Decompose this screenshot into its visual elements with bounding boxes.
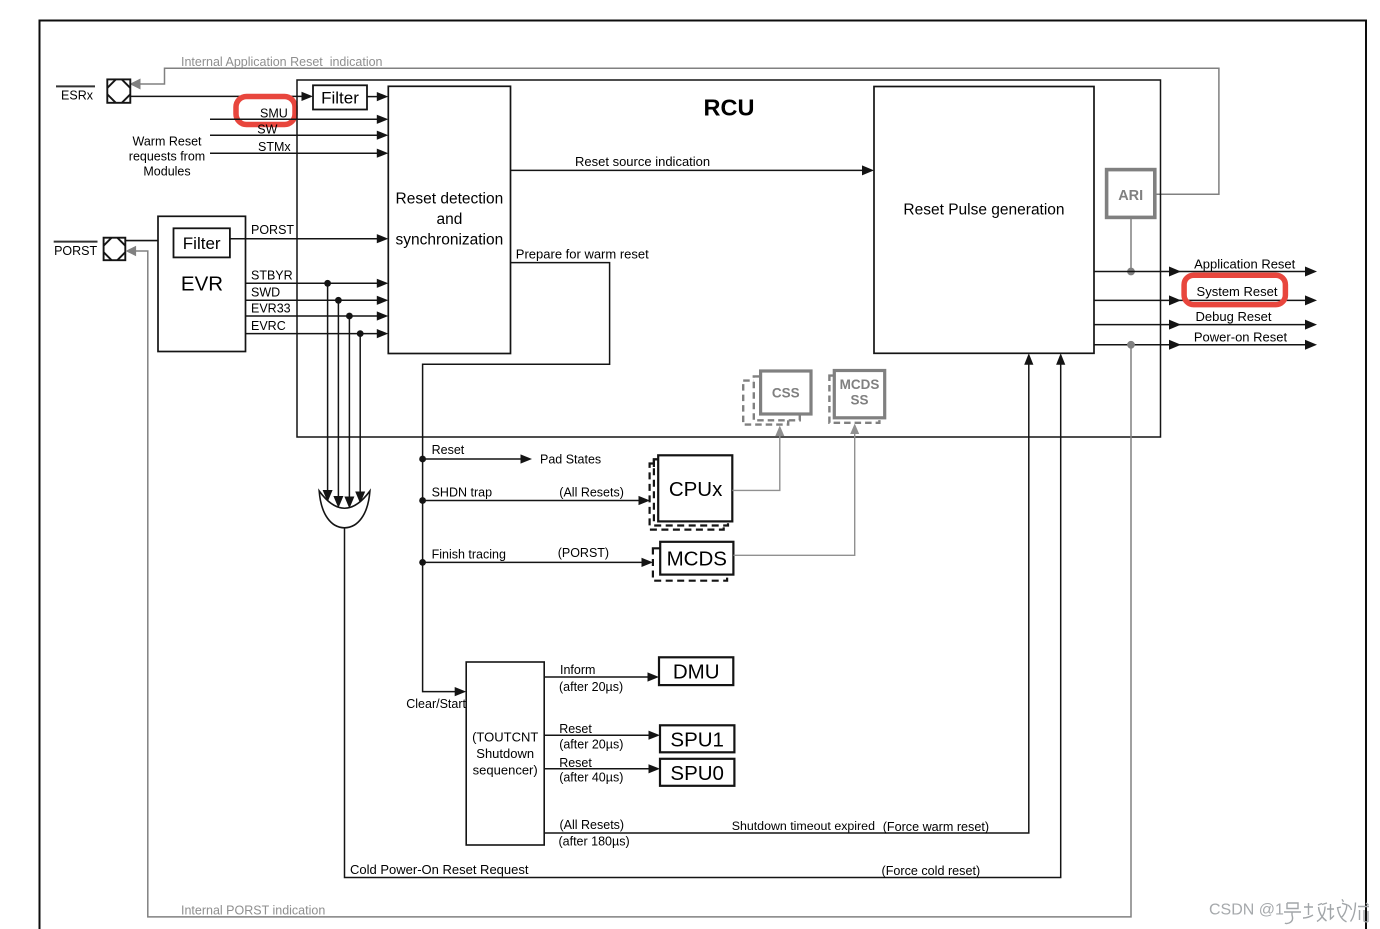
wire EVRC [246, 333, 378, 335]
block MCDS (with dashed shadow) [653, 542, 734, 581]
svg-text:sequencer): sequencer) [473, 762, 538, 777]
wire Finish tracing (PORST) to MCDS [419, 559, 426, 566]
wire PORST pad to Filter (EVR) [125, 240, 162, 242]
wire System Reset output [1094, 299, 1308, 301]
svg-text:EVRC: EVRC [251, 319, 286, 333]
svg-text:Pad States: Pad States [540, 452, 601, 466]
wire ARI down to Application Reset (gray) [1130, 217, 1132, 271]
junction dot EVR33 [346, 313, 353, 320]
svg-text:(All Resets): (All Resets) [560, 818, 625, 832]
svg-text:and: and [436, 211, 462, 228]
svg-text:SMU: SMU [260, 107, 288, 121]
svg-text:CPUx: CPUx [669, 478, 723, 501]
svg-text:Cold Power-On Reset Request: Cold Power-On Reset Request [350, 862, 529, 877]
block TOUTCNT Shutdown sequencer [466, 662, 544, 845]
label: Warm Reset requests from Modules [129, 135, 205, 179]
svg-text:MCDS: MCDS [667, 548, 727, 571]
wire Reset / Pad States [419, 456, 426, 463]
svg-text:Reset Pulse generation: Reset Pulse generation [903, 202, 1064, 219]
svg-text:SW: SW [257, 123, 277, 137]
pad PORST (square with corner cuts) [104, 238, 126, 261]
svg-text:Inform: Inform [560, 663, 595, 677]
wire Debug Reset output [1094, 324, 1308, 326]
block RCU (outer) [297, 80, 1161, 437]
block MCDS SS (stacked, gray) [829, 371, 884, 423]
wire (All Resets) (after 180us) / Shutdown timeout expired (Force warm reset) [544, 364, 1029, 833]
block CPUx (stacked) [650, 455, 733, 529]
svg-text:SWD: SWD [251, 286, 280, 300]
svg-text:Finish tracing: Finish tracing [432, 547, 506, 561]
junction dot SWD [335, 297, 342, 304]
block SPU0 [660, 759, 734, 786]
svg-text:SPU1: SPU1 [670, 728, 724, 751]
hanzi 城 [1327, 899, 1347, 922]
block ARI (gray) [1107, 170, 1155, 218]
wire Reset source indication [511, 169, 864, 171]
svg-text:requests from: requests from [129, 150, 205, 164]
svg-text:Reset: Reset [559, 722, 592, 736]
svg-text:CSDN @1: CSDN @1 [1209, 902, 1284, 919]
svg-text:Filter: Filter [183, 234, 221, 253]
wire EVRC drop to OR gate [359, 334, 361, 495]
block Filter (EVR) [174, 228, 230, 257]
svg-text:synchronization: synchronization [396, 232, 504, 249]
wire SMU [210, 118, 378, 120]
hanzi 攻 [1303, 903, 1327, 922]
wire Power-on Reset output [1094, 344, 1308, 346]
block DMU [659, 657, 733, 685]
wire SHDN trap (All Resets) to CPUx [419, 497, 426, 504]
junction dot STBYR [324, 280, 331, 287]
svg-text:ARI: ARI [1118, 188, 1143, 204]
wire STBYR [246, 282, 378, 284]
arrowhead into ESRx pad (gray) [130, 79, 141, 90]
junction dot gray on Application Reset [1127, 268, 1135, 276]
wire Internal PORST indication (gray net, Power-on Reset to PORST pad) [136, 251, 1131, 917]
wire EVR33 [246, 315, 378, 317]
svg-text:STBYR: STBYR [251, 269, 293, 283]
svg-text:ESRx: ESRx [61, 89, 94, 103]
node ESRx label with overline [56, 86, 95, 102]
block SPU1 [660, 725, 734, 752]
wire STMx [210, 152, 378, 154]
svg-text:Warm Reset: Warm Reset [133, 135, 203, 149]
svg-text:EVR33: EVR33 [251, 301, 291, 315]
svg-text:(TOUTCNT: (TOUTCNT [472, 729, 538, 744]
svg-text:(after 180µs): (after 180µs) [559, 835, 630, 849]
wire: Internal Application Reset indication (gray net, pad to ARI) [136, 68, 1219, 194]
gray arrowhead into PORST pad [126, 246, 137, 256]
svg-text:(after 20µs): (after 20µs) [559, 737, 623, 751]
svg-text:Modules: Modules [143, 165, 190, 179]
wire ESRx to Filter [130, 95, 302, 97]
svg-text:SHDN trap: SHDN trap [432, 486, 492, 500]
wire Reset (after 20us) to SPU1 [544, 734, 649, 736]
svg-text:Debug Reset: Debug Reset [1196, 309, 1272, 324]
junction dot gray on Power-on Reset [1127, 341, 1135, 349]
wire Filter to Reset detection [367, 96, 378, 98]
svg-text:Reset: Reset [432, 443, 465, 457]
block Reset detection and synchronization [388, 86, 510, 353]
hanzi 号 [1284, 903, 1301, 924]
svg-text:Filter: Filter [321, 88, 359, 107]
svg-text:Internal Application Reset in: Internal Application Reset indication [181, 55, 383, 69]
wire Reset (after 40us) to SPU0 [544, 768, 649, 770]
svg-text:PORST: PORST [251, 223, 294, 237]
highlight System Reset (red rounded rect) [1184, 275, 1285, 304]
wire MCDS to MCDS SS (gray) [733, 433, 854, 556]
svg-text:(Force cold reset): (Force cold reset) [882, 864, 981, 878]
svg-text:(PORST): (PORST) [558, 546, 609, 560]
gate OR (pointing down) [319, 491, 370, 528]
svg-text:Shutdown timeout expired: Shutdown timeout expired [732, 819, 875, 833]
svg-text:Reset: Reset [559, 756, 592, 770]
junction dot EVRC [357, 330, 364, 337]
svg-text:(after 40µs): (after 40µs) [559, 771, 623, 785]
wire Inform (after 20us) to DMU [544, 676, 648, 678]
highlight SMU (red rounded rect) [236, 97, 295, 125]
svg-text:(Force warm reset): (Force warm reset) [883, 820, 989, 834]
svg-text:EVR: EVR [181, 273, 223, 296]
svg-text:DMU: DMU [673, 661, 720, 684]
block Filter (top) [313, 85, 367, 109]
svg-text:SS: SS [850, 393, 868, 408]
svg-text:PORST: PORST [54, 244, 97, 258]
block CSS (stacked, gray) [743, 371, 811, 425]
svg-text:MCDS: MCDS [840, 377, 880, 392]
svg-text:CSS: CSS [772, 385, 800, 400]
svg-text:STMx: STMx [258, 140, 291, 154]
node PORST label with overline [54, 242, 98, 259]
svg-text:(after 20µs): (after 20µs) [559, 680, 623, 694]
wire SWD drop to OR gate [337, 300, 339, 499]
wire PORST to Reset detection [230, 238, 378, 240]
wire CPUx to CSS (gray) [732, 435, 780, 491]
wire Application Reset output [1094, 271, 1308, 273]
wire OR output / Cold Power-On Reset Request [345, 364, 1061, 877]
wire SW [210, 134, 378, 136]
pad ESRx (square with corner cuts) [107, 79, 130, 102]
svg-text:Prepare for warm reset: Prepare for warm reset [516, 246, 649, 261]
wire EVR33 drop to OR gate [348, 316, 350, 500]
svg-text:Application Reset: Application Reset [1194, 256, 1296, 271]
svg-text:Reset source indication: Reset source indication [575, 154, 710, 169]
wire STBYR drop to OR gate [327, 283, 329, 493]
svg-text:SPU0: SPU0 [670, 762, 724, 785]
hanzi 狮 [1348, 903, 1369, 922]
wire Prepare for warm reset [423, 263, 610, 692]
svg-text:(All Resets): (All Resets) [559, 486, 624, 500]
svg-text:Reset detection: Reset detection [396, 191, 504, 208]
svg-text:Clear/Start: Clear/Start [406, 697, 466, 711]
block EVR [158, 216, 246, 351]
svg-text:Shutdown: Shutdown [476, 746, 534, 761]
svg-text:System Reset: System Reset [1197, 284, 1278, 299]
svg-text:Power-on Reset: Power-on Reset [1194, 329, 1288, 344]
svg-text:RCU: RCU [704, 95, 755, 121]
block Reset Pulse generation [874, 87, 1094, 354]
wire SWD [246, 299, 378, 301]
svg-text:Internal PORST indication: Internal PORST indication [181, 903, 325, 917]
